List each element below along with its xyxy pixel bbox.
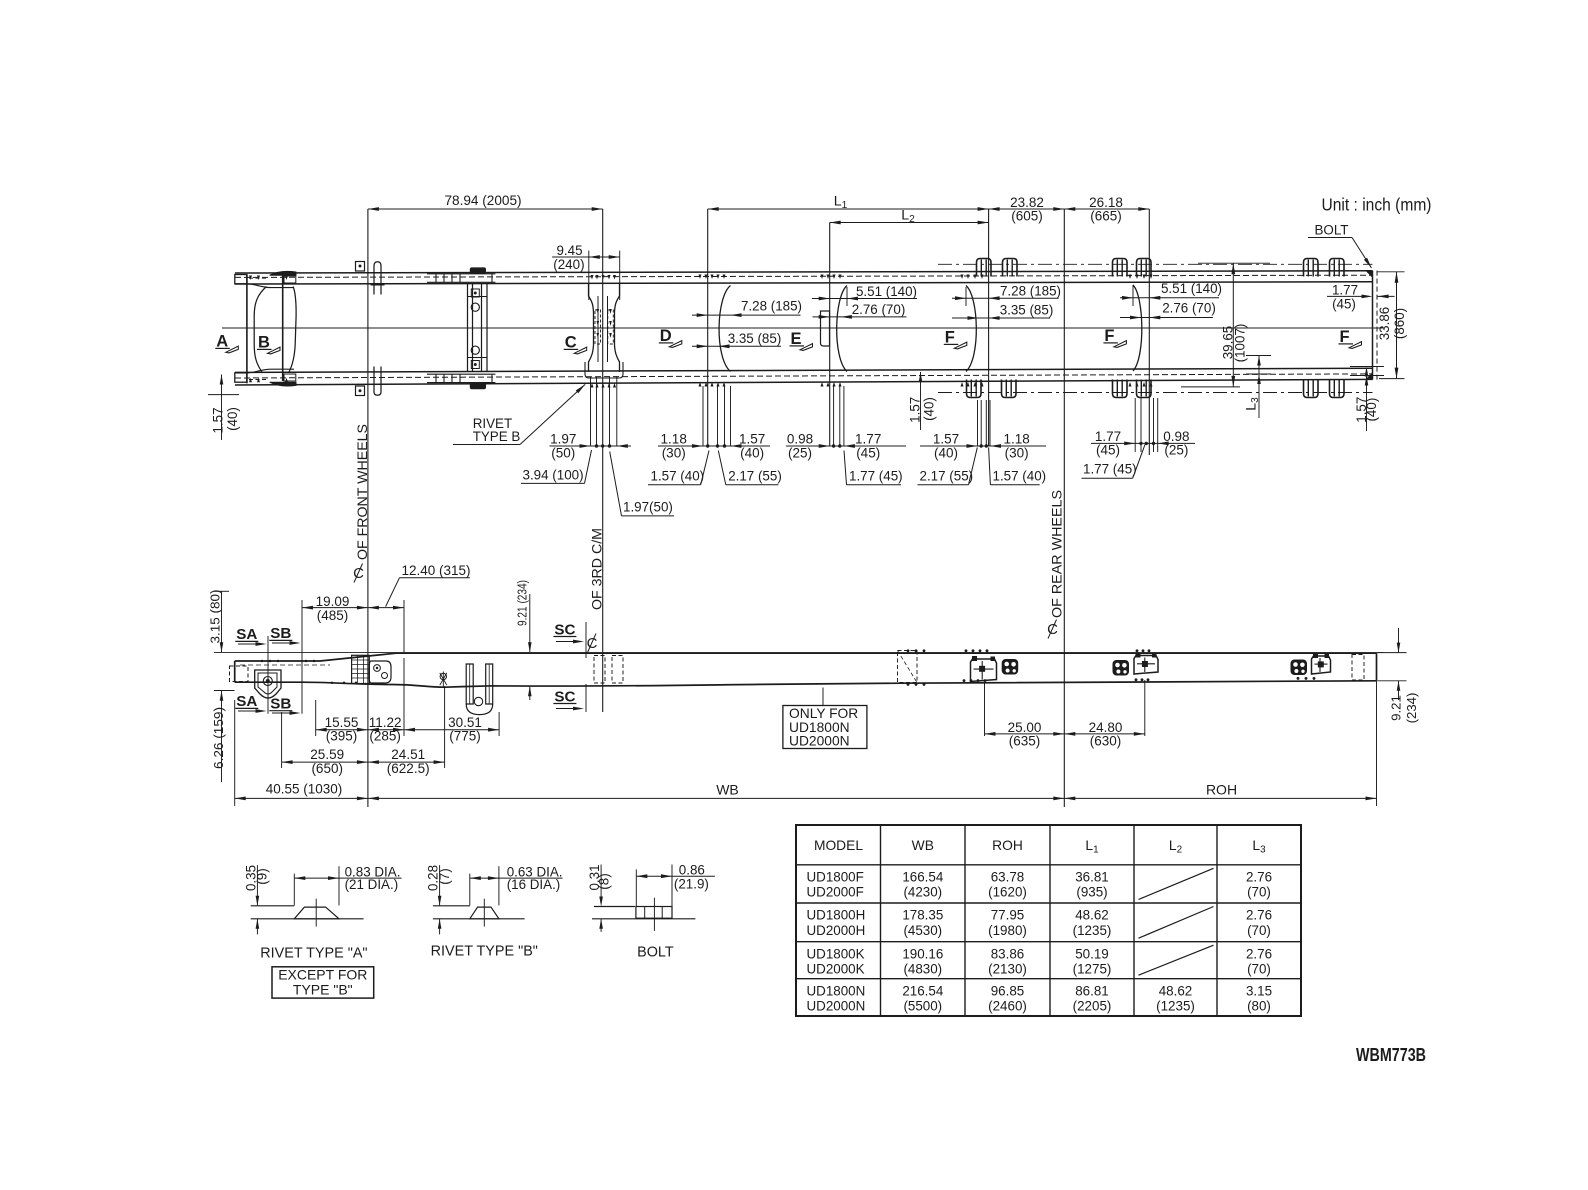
svg-text:1.77: 1.77	[1095, 429, 1121, 444]
svg-text:(70): (70)	[1247, 885, 1271, 900]
svg-text:2.17 (55): 2.17 (55)	[920, 469, 974, 484]
svg-text:WBM773B: WBM773B	[1356, 1044, 1426, 1065]
svg-text:OF FRONT WHEELS: OF FRONT WHEELS	[354, 424, 370, 560]
svg-text:0.86: 0.86	[679, 862, 705, 877]
svg-text:(40): (40)	[934, 445, 958, 460]
svg-text:(5500): (5500)	[903, 999, 942, 1014]
svg-text:216.54: 216.54	[902, 983, 944, 998]
svg-text:UD2000F: UD2000F	[807, 885, 864, 900]
svg-text:1.57: 1.57	[933, 432, 959, 447]
svg-text:11.22: 11.22	[369, 715, 402, 730]
svg-text:(21.9): (21.9)	[674, 876, 709, 891]
svg-text:1.57 (40): 1.57 (40)	[993, 469, 1047, 484]
svg-text:(485): (485)	[317, 608, 349, 623]
svg-text:WB: WB	[716, 782, 739, 798]
svg-text:BOLT: BOLT	[1315, 223, 1349, 238]
svg-text:SB: SB	[270, 625, 291, 642]
svg-text:(622.5): (622.5)	[387, 761, 430, 776]
svg-text:RIVET TYPE "B": RIVET TYPE "B"	[431, 944, 538, 960]
svg-text:1.77: 1.77	[855, 432, 881, 447]
svg-text:RIVET TYPE "A": RIVET TYPE "A"	[260, 946, 367, 962]
svg-text:(605): (605)	[1011, 209, 1043, 224]
svg-text:48.62: 48.62	[1075, 908, 1109, 923]
svg-text:(1007): (1007)	[1233, 324, 1248, 363]
svg-text:(50): (50)	[551, 445, 575, 460]
svg-text:30.51: 30.51	[448, 715, 482, 730]
svg-text:(1980): (1980)	[988, 923, 1027, 938]
svg-text:9.21: 9.21	[1388, 695, 1403, 721]
svg-text:77.95: 77.95	[991, 908, 1025, 923]
svg-text:3.35 (85): 3.35 (85)	[1000, 303, 1054, 318]
svg-text:(4230): (4230)	[903, 885, 942, 900]
svg-text:(1235): (1235)	[1073, 923, 1112, 938]
svg-text:C: C	[1047, 621, 1058, 638]
svg-text:(4530): (4530)	[903, 923, 942, 938]
svg-text:SA: SA	[236, 693, 257, 710]
svg-text:3.94 (100): 3.94 (100)	[523, 468, 584, 483]
svg-text:12.40 (315): 12.40 (315)	[402, 563, 471, 578]
svg-text:2.76: 2.76	[1246, 869, 1272, 884]
svg-text:96.85: 96.85	[991, 983, 1025, 998]
svg-text:(30): (30)	[662, 445, 686, 460]
svg-text:50.19: 50.19	[1075, 946, 1109, 961]
svg-text:(16 DIA.): (16 DIA.)	[507, 877, 561, 892]
svg-text:166.54: 166.54	[902, 869, 944, 884]
svg-text:0.98: 0.98	[787, 432, 813, 447]
svg-text:3.35 (85): 3.35 (85)	[728, 331, 782, 346]
svg-text:UD1800K: UD1800K	[807, 946, 865, 961]
svg-text:1.77 (45): 1.77 (45)	[849, 469, 903, 484]
svg-text:3.15 (80): 3.15 (80)	[208, 590, 223, 644]
svg-text:6.26 (159): 6.26 (159)	[211, 707, 226, 769]
svg-text:SC: SC	[554, 621, 575, 638]
svg-text:36.81: 36.81	[1075, 869, 1109, 884]
svg-text:48.62: 48.62	[1159, 983, 1193, 998]
svg-text:OF REAR WHEELS: OF REAR WHEELS	[1049, 490, 1065, 618]
svg-text:33.86: 33.86	[1377, 307, 1392, 341]
svg-text:TYPE "B": TYPE "B"	[293, 981, 353, 997]
svg-text:OF 3RD C/M: OF 3RD C/M	[589, 528, 605, 610]
svg-text:178.35: 178.35	[902, 908, 943, 923]
svg-text:(2205): (2205)	[1073, 999, 1112, 1014]
svg-text:Unit : inch (mm): Unit : inch (mm)	[1322, 195, 1432, 215]
svg-text:C: C	[587, 635, 598, 652]
svg-text:UD1800H: UD1800H	[807, 908, 866, 923]
svg-text:(40): (40)	[225, 407, 240, 431]
svg-text:5.51 (140): 5.51 (140)	[1161, 281, 1222, 296]
svg-text:1.57: 1.57	[908, 397, 923, 423]
svg-text:(40): (40)	[740, 445, 764, 460]
svg-text:3.15: 3.15	[1246, 983, 1272, 998]
svg-text:7.28 (185): 7.28 (185)	[1000, 284, 1061, 299]
svg-text:1.97(50): 1.97(50)	[623, 500, 673, 515]
svg-text:SC: SC	[554, 688, 575, 705]
svg-text:ROH: ROH	[1206, 782, 1237, 798]
svg-text:UD1800N: UD1800N	[807, 983, 866, 998]
svg-text:(25): (25)	[788, 445, 812, 460]
svg-text:15.55: 15.55	[325, 715, 359, 730]
svg-text:7.28 (185): 7.28 (185)	[741, 298, 802, 313]
svg-text:(70): (70)	[1247, 962, 1271, 977]
svg-text:(80): (80)	[1247, 999, 1271, 1014]
svg-text:1.18: 1.18	[1003, 432, 1029, 447]
svg-text:(2130): (2130)	[988, 962, 1027, 977]
svg-text:2.76 (70): 2.76 (70)	[852, 302, 906, 317]
svg-text:24.51: 24.51	[391, 747, 425, 762]
svg-text:24.80: 24.80	[1089, 720, 1123, 735]
svg-text:SA: SA	[236, 626, 257, 643]
svg-text:0.98: 0.98	[1163, 429, 1189, 444]
svg-text:MODEL: MODEL	[814, 838, 863, 853]
svg-text:1.57: 1.57	[211, 407, 226, 433]
svg-text:WB: WB	[912, 838, 934, 853]
svg-text:SB: SB	[270, 696, 291, 713]
svg-text:(935): (935)	[1076, 885, 1107, 900]
svg-text:UD1800N: UD1800N	[789, 720, 850, 735]
svg-text:UD1800F: UD1800F	[807, 869, 864, 884]
svg-text:25.00: 25.00	[1008, 720, 1042, 735]
svg-text:5.51 (140): 5.51 (140)	[856, 284, 917, 299]
svg-text:(30): (30)	[1005, 445, 1029, 460]
svg-text:1.57: 1.57	[739, 432, 765, 447]
svg-text:ONLY FOR: ONLY FOR	[789, 706, 858, 721]
svg-text:ROH: ROH	[992, 838, 1023, 853]
svg-text:(40): (40)	[922, 397, 937, 421]
svg-text:UD2000N: UD2000N	[807, 999, 866, 1014]
svg-text:(9): (9)	[255, 868, 270, 884]
svg-text:1.77: 1.77	[1332, 282, 1358, 297]
svg-text:23.82: 23.82	[1010, 195, 1044, 210]
svg-text:UD2000K: UD2000K	[807, 962, 865, 977]
svg-text:UD2000H: UD2000H	[807, 923, 866, 938]
svg-text:EXCEPT FOR: EXCEPT FOR	[278, 967, 367, 983]
svg-text:26.18: 26.18	[1089, 195, 1123, 210]
svg-text:(21 DIA.): (21 DIA.)	[345, 877, 399, 892]
svg-text:(45): (45)	[1332, 296, 1356, 311]
svg-text:(7): (7)	[437, 868, 452, 884]
svg-text:(635): (635)	[1009, 734, 1041, 749]
svg-text:9.21 (234): 9.21 (234)	[515, 580, 530, 626]
svg-text:BOLT: BOLT	[637, 944, 674, 960]
svg-text:1.57 (40): 1.57 (40)	[651, 469, 705, 484]
svg-text:(1620): (1620)	[988, 885, 1027, 900]
svg-text:25.59: 25.59	[310, 747, 344, 762]
svg-text:(650): (650)	[311, 761, 343, 776]
svg-text:(240): (240)	[553, 257, 584, 272]
svg-text:(45): (45)	[856, 445, 880, 460]
svg-text:(1275): (1275)	[1073, 962, 1112, 977]
svg-text:(1235): (1235)	[1156, 999, 1195, 1014]
svg-text:2.76 (70): 2.76 (70)	[1162, 301, 1216, 316]
svg-text:(860): (860)	[1392, 308, 1407, 339]
svg-text:(285): (285)	[369, 729, 401, 744]
svg-text:(665): (665)	[1090, 209, 1122, 224]
svg-text:40.55 (1030): 40.55 (1030)	[266, 782, 343, 797]
svg-text:(775): (775)	[449, 729, 481, 744]
svg-text:2.17 (55): 2.17 (55)	[728, 469, 782, 484]
svg-text:78.94 (2005): 78.94 (2005)	[444, 193, 521, 208]
svg-text:(2460): (2460)	[988, 999, 1027, 1014]
svg-text:UD2000N: UD2000N	[789, 734, 850, 749]
svg-text:(234): (234)	[1404, 693, 1419, 724]
svg-text:(70): (70)	[1247, 923, 1271, 938]
svg-text:63.78: 63.78	[991, 869, 1025, 884]
svg-text:1.18: 1.18	[661, 432, 687, 447]
svg-text:(40): (40)	[1364, 398, 1379, 422]
svg-text:2.76: 2.76	[1246, 946, 1272, 961]
svg-text:(630): (630)	[1090, 734, 1122, 749]
svg-text:1.77 (45): 1.77 (45)	[1083, 462, 1137, 477]
svg-text:(25): (25)	[1164, 443, 1188, 458]
svg-text:190.16: 190.16	[902, 946, 943, 961]
svg-text:1.97: 1.97	[550, 432, 576, 447]
svg-text:(45): (45)	[1096, 443, 1120, 458]
svg-text:TYPE B: TYPE B	[473, 429, 521, 444]
svg-text:(8): (8)	[597, 873, 612, 889]
svg-text:86.81: 86.81	[1075, 983, 1109, 998]
svg-text:83.86: 83.86	[991, 946, 1025, 961]
svg-text:2.76: 2.76	[1246, 908, 1272, 923]
svg-text:(395): (395)	[326, 729, 358, 744]
svg-text:(4830): (4830)	[903, 962, 942, 977]
svg-text:C: C	[353, 565, 364, 582]
svg-text:19.09: 19.09	[316, 594, 350, 609]
